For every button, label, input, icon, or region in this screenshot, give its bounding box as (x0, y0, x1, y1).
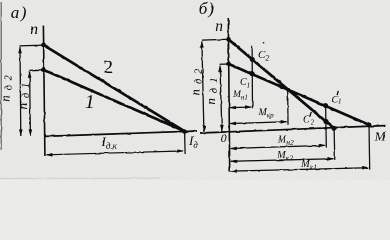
dimension arrow I_d.k (47, 151, 183, 155)
dimension line n_d1 (fig b) (220, 66, 222, 132)
dot end line 2 on axis (331, 126, 336, 131)
vertical line through C2 C1 (251, 46, 253, 109)
extension below line2 end dot to row 2 (333, 129, 336, 160)
extension below M dot to row 3 (368, 125, 371, 170)
faint page bottom line (0, 177, 160, 179)
svg-text:С: С (303, 115, 310, 126)
dimension arrow M_kr (230, 122, 287, 124)
vertical axis (fig a) (43, 26, 45, 157)
svg-text:2: 2 (104, 57, 114, 78)
extension line below end point (184, 131, 187, 154)
apostrophe tick above label 1 (92, 89, 93, 92)
dimension arrow M_k2 (row 2) (231, 159, 334, 162)
crossing dot of lines 1 and 2 (286, 88, 290, 92)
characteristic line 1 (fig b, shallow) (229, 64, 369, 125)
dot start line 1 (226, 62, 231, 67)
dimension line n_d2 (vertical, double arrow) (19, 47, 22, 136)
vertical line through C'1 C'2 down to row 1 (325, 105, 328, 147)
svg-text:б): б) (199, 0, 215, 18)
characteristic line 2 (fig a) (43, 45, 184, 131)
dot on axis, start of line 1 (41, 67, 46, 72)
scan speck above C2 (263, 42, 265, 44)
point C2 (250, 57, 255, 62)
dimension line n_d2 (fig b) (202, 42, 204, 132)
paper grain (0, 0, 1, 1)
point C1 (250, 71, 255, 76)
dimension arrow M_n1 (230, 106, 251, 109)
tick at n_d2 level (fig b) (202, 38, 228, 41)
tick at n_d1 level (29, 69, 43, 72)
svg-text:0: 0 (221, 131, 227, 145)
horizontal axis (fig b) (200, 126, 386, 133)
dot start line 2 (226, 37, 231, 42)
dot M end line 1 on axis (366, 122, 371, 127)
vertical axis (fig b) (228, 18, 229, 171)
svg-text:1: 1 (85, 91, 95, 113)
characteristic line 2 (fig b, steep) (228, 39, 334, 128)
scan page left edge line (0, 2, 2, 150)
svg-text:М: М (374, 128, 387, 143)
svg-text:п: п (215, 18, 223, 35)
dimension arrow M_n2 (row 1) (231, 145, 325, 148)
tick at n_d2 level (20, 44, 44, 47)
dot on axis, start of line 2 (41, 43, 46, 48)
svg-text:2: 2 (311, 119, 315, 127)
svg-text:п: п (30, 21, 38, 38)
vertical line below crossing (287, 90, 289, 124)
point C'2 (323, 119, 328, 124)
end point dot (fig a) (182, 129, 187, 134)
characteristic line 1 (fig a) (43, 70, 184, 132)
dimension arrow M_k1 (row 3) (231, 168, 368, 171)
dimension line n_d1 (vertical, double arrow) (29, 72, 32, 137)
horizontal axis (fig a) (44, 131, 197, 136)
tick at n_d1 level (fig b) (220, 63, 229, 65)
svg-text:а): а) (11, 3, 28, 22)
svg-text:1: 1 (338, 98, 342, 106)
point C'1 (323, 103, 328, 108)
